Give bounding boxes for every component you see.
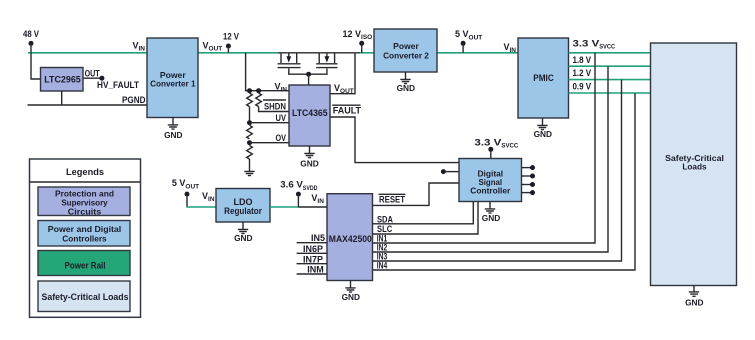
ground of resistor divider [244, 159, 254, 176]
transistor Q1 (back-to-back FET left) [278, 53, 309, 74]
wire: 3.3V SVCC green rail [569, 52, 651, 54]
node: 5 V_OUT input of LDO [172, 178, 199, 207]
node: DSC right stub 2 [522, 174, 536, 179]
legend swatch: Protection and Supervisory Circuits [38, 187, 130, 217]
node OV junction [247, 140, 289, 145]
svg-text:IN6P: IN6P [303, 244, 323, 254]
label 3.3 V_SVCC rail [573, 38, 616, 50]
svg-text:Legends: Legends [66, 167, 104, 178]
ground of DSC [482, 202, 500, 224]
svg-text:INM: INM [307, 265, 324, 275]
pin VIN of PMIC [503, 42, 516, 54]
svg-text:GND: GND [342, 292, 360, 302]
ground of Power Converter 2 [397, 72, 415, 93]
wire: R1 to UV node [249, 107, 251, 123]
wire: 0.9V green rail [569, 92, 651, 94]
svg-text:48 V: 48 V [23, 29, 39, 39]
wire: 0.9V tap down to IN4 [373, 93, 636, 270]
pin VIN of LDO [202, 191, 215, 203]
wire: green LDO output [270, 206, 298, 208]
block Power Converter 2 [374, 29, 437, 72]
svg-text:1.2 V: 1.2 V [573, 68, 592, 78]
ground of PMIC [534, 118, 552, 139]
ground of MAX42500 [342, 281, 360, 303]
pin IN7P of MAX42500 [297, 254, 327, 264]
wire: black rail through MOSFETs [278, 52, 362, 54]
transistor Q2 (back-to-back FET right) [309, 53, 338, 74]
wire: 12V green rail PC1 to FETs [198, 52, 278, 54]
svg-text:Power Rail: Power Rail [65, 261, 106, 271]
wire: PGND line [28, 104, 148, 106]
wire: 3.3V tap down to IN1 [373, 53, 596, 243]
ground of Power Converter 1 [164, 118, 182, 141]
pin IN5 of MAX42500 [297, 233, 327, 243]
ground of LTC4365 [300, 146, 318, 169]
pin OV of LTC4365 [276, 133, 287, 143]
svg-text:Converter 2: Converter 2 [383, 51, 429, 61]
node: resistor divider top junction dots [247, 88, 261, 93]
svg-text:Converter 1: Converter 1 [150, 78, 196, 88]
label 1.2 V rail [573, 68, 592, 78]
wire: R2 to SHDN pin [259, 107, 289, 112]
pin RESET of MAX42500 routed to DSC [373, 183, 460, 205]
svg-text:Controllers: Controllers [62, 234, 107, 244]
wire: 1.2V tap down to IN3 [373, 80, 622, 261]
svg-text:HV_FAULT: HV_FAULT [97, 80, 139, 90]
svg-text:PMIC: PMIC [533, 73, 554, 83]
wire: green LDO input [186, 206, 216, 208]
legend box [30, 159, 141, 317]
pin IN1 label [377, 234, 388, 244]
pin IN6P of MAX42500 [297, 244, 327, 254]
node: DSC right stub 4 [522, 190, 536, 195]
svg-text:LTC4365: LTC4365 [292, 108, 328, 118]
IC LTC4365 [289, 85, 330, 146]
node: DSC right stub 1 [522, 165, 536, 170]
pin IN2 label [377, 243, 388, 253]
ground of LDO [234, 222, 252, 243]
svg-text:GND: GND [482, 213, 500, 223]
wire: black to MAX42500 VIN [298, 206, 327, 208]
IC MAX42500 [327, 194, 373, 281]
svg-text:GND: GND [397, 83, 415, 93]
svg-text:OUT: OUT [85, 69, 100, 79]
node: 3.6 V_SVDD [280, 180, 317, 207]
block PMIC [518, 38, 569, 118]
svg-text:Controller: Controller [470, 186, 511, 196]
node: 12 V [223, 31, 239, 53]
svg-text:SHDN: SHDN [264, 101, 286, 111]
legend swatch: Power Rail [38, 251, 130, 276]
pin IN4 label [377, 261, 388, 271]
wire: tap from 12V rail to LTC4365 VIN [246, 53, 289, 91]
svg-text:12 V: 12 V [223, 31, 239, 41]
svg-text:1.8 V: 1.8 V [573, 55, 592, 65]
wire: 48V tap down to LTC2965 VIN [31, 53, 41, 79]
label 0.9 V rail [573, 82, 592, 92]
svg-text:Loads: Loads [682, 162, 707, 172]
pin FAULT of LTC4365 routed to DSC [330, 105, 459, 162]
pin VOUT of Power Converter 1 [203, 40, 223, 52]
pin SLC of MAX42500 to DSC [373, 202, 479, 235]
svg-text:RESET: RESET [379, 195, 405, 205]
svg-text:Power and Digital: Power and Digital [48, 224, 121, 234]
wire: 5V green rail PC2 to PMIC [437, 52, 518, 54]
block Digital Signal Controller [459, 159, 522, 202]
pin INM of MAX42500 [297, 265, 327, 275]
block Power Converter 1 [147, 38, 198, 118]
node: DSC left pin stub [441, 169, 459, 174]
resistor R2 (SHDN divider) [256, 93, 262, 107]
legend swatch: Power and Digital Controllers [38, 221, 130, 247]
node UV junction [247, 120, 289, 125]
node: 3.3 V_SVCC of DSC [474, 137, 518, 158]
svg-text:FAULT: FAULT [333, 106, 362, 116]
svg-text:0.9 V: 0.9 V [573, 82, 592, 92]
svg-text:Circuits: Circuits [68, 207, 102, 217]
node: 12 V_ISO [343, 29, 373, 53]
svg-text:GND: GND [685, 298, 703, 308]
pin VIN of LTC4365 [274, 82, 287, 94]
wire: 1.2V green rail [569, 79, 651, 81]
resistor R4 (OV divider bottom) [247, 146, 253, 160]
resistor R3 (UV divider bottom / OV top) [247, 125, 253, 139]
svg-text:PGND: PGND [122, 95, 146, 105]
svg-text:GND: GND [300, 159, 318, 169]
label 1.8 V rail [573, 55, 592, 65]
svg-text:IN7P: IN7P [303, 254, 323, 264]
svg-text:GND: GND [234, 233, 252, 243]
pin SHDN of LTC4365 [263, 100, 286, 111]
pin SDA of MAX42500 to DSC [373, 202, 474, 225]
svg-text:IN4: IN4 [377, 261, 388, 271]
svg-text:Regulator: Regulator [224, 206, 262, 216]
pin IN3 label [377, 252, 388, 262]
node: DSC right stub 3 [522, 182, 536, 187]
block LDO Regulator [216, 189, 270, 223]
svg-text:MAX42500: MAX42500 [329, 234, 372, 244]
ground of Safety-Critical Loads [685, 286, 703, 308]
wire: LTC2965 ground stub to PGND [61, 91, 63, 105]
svg-text:IN5: IN5 [311, 233, 325, 243]
pin OUT of LTC2965 [83, 69, 104, 81]
wire: 1.8V tap down to IN2 [373, 66, 609, 252]
svg-text:OV: OV [276, 133, 287, 143]
pin VIN of MAX42500 [311, 193, 324, 205]
svg-text:SDA: SDA [377, 214, 393, 224]
svg-text:LTC2965: LTC2965 [44, 75, 81, 85]
wire: 48V green rail [28, 52, 147, 54]
pin VOUT of LTC4365 to 12V_ISO rail [330, 53, 355, 95]
legend swatch: Safety-Critical Loads [38, 281, 130, 312]
svg-text:GND: GND [164, 130, 182, 140]
node: common gate [306, 72, 311, 85]
label PGND [122, 95, 146, 105]
node: 48 V [23, 29, 39, 53]
wire: green rail into PC2 [360, 52, 374, 54]
pin UV of LTC4365 [276, 113, 287, 123]
pin VIN of Power Converter 1 [132, 41, 145, 53]
svg-text:UV: UV [276, 113, 287, 123]
label HV_FAULT [97, 80, 139, 90]
svg-text:Safety-Critical Loads: Safety-Critical Loads [42, 292, 129, 302]
svg-text:GND: GND [534, 129, 552, 139]
IC LTC2965 [41, 68, 84, 92]
node: 5 V_OUT [455, 29, 482, 53]
wire: 1.8V green rail [569, 65, 651, 67]
resistor R1 (UV divider top) [247, 93, 253, 107]
block Safety-Critical Loads [651, 43, 737, 286]
